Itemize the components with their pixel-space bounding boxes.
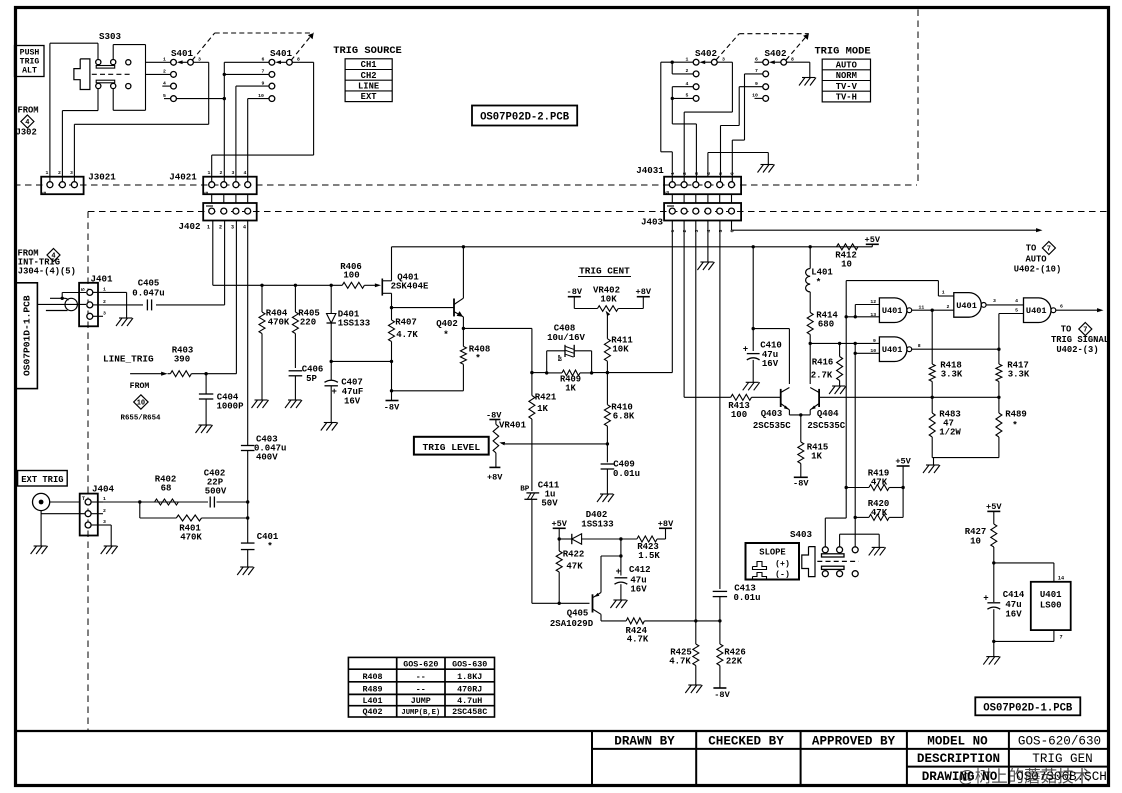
svg-text:2SC535C: 2SC535C bbox=[807, 421, 845, 431]
svg-text:6: 6 bbox=[730, 172, 736, 175]
connector J4021 bbox=[203, 177, 257, 195]
svg-text:2: 2 bbox=[103, 299, 106, 305]
svg-text:3: 3 bbox=[232, 170, 235, 176]
wire R407 R408 common to -8V bbox=[390, 389, 393, 392]
S303 linkage dashed line bbox=[92, 73, 132, 75]
dashed boundary OS07P02D-1.PCB left edge bbox=[87, 212, 89, 732]
svg-text:ALT: ALT bbox=[22, 67, 37, 76]
wire S403-2 to ground bbox=[839, 534, 841, 547]
wire J401-1 to shield bbox=[62, 292, 86, 294]
svg-text:JUMP(B,E): JUMP(B,E) bbox=[401, 709, 440, 717]
capacitor C408 parallel R409 loop bbox=[545, 371, 548, 374]
wire S401-6 to J4021-2 column bbox=[224, 61, 269, 63]
svg-text:1: 1 bbox=[670, 229, 676, 232]
svg-text:R489: R489 bbox=[1005, 410, 1027, 420]
svg-text:U401: U401 bbox=[882, 345, 903, 355]
svg-text:3: 3 bbox=[694, 229, 700, 232]
svg-text:0.047u: 0.047u bbox=[132, 289, 164, 299]
wire S403-1 to R419 net bbox=[845, 488, 847, 519]
ground at C404 bbox=[199, 424, 212, 426]
SLOPE minus icon bbox=[753, 573, 767, 580]
ground at R404 bbox=[255, 399, 268, 401]
svg-text:R408: R408 bbox=[362, 672, 382, 682]
svg-text:T: T bbox=[82, 496, 85, 502]
S402 pin 2 contact bbox=[693, 71, 699, 77]
OS07P02D-2.PCB label box bbox=[472, 106, 577, 126]
wire Q401 source node bbox=[390, 306, 393, 309]
svg-text:TV-H: TV-H bbox=[836, 93, 857, 103]
+5V terminal at D402 bbox=[553, 527, 566, 529]
main supply rail to +5V bbox=[392, 246, 873, 248]
svg-text:2: 2 bbox=[163, 69, 166, 75]
VR402 wiper arrow bbox=[606, 315, 608, 339]
switch S403 actuator bbox=[802, 547, 815, 577]
svg-text:16V: 16V bbox=[1005, 609, 1022, 619]
svg-text:5: 5 bbox=[1015, 307, 1018, 313]
svg-text:SLOPE: SLOPE bbox=[759, 548, 785, 558]
wire J403-5 column with C413 bbox=[719, 221, 721, 590]
svg-text:Q403: Q403 bbox=[761, 409, 783, 419]
wire C405 to J402-2 bbox=[156, 304, 225, 306]
+5V terminal at R412 bbox=[871, 244, 873, 247]
svg-text:+: + bbox=[983, 594, 988, 604]
svg-text:8: 8 bbox=[791, 56, 794, 62]
wire S402-9 to J4031-5 bbox=[739, 86, 763, 88]
svg-text:2: 2 bbox=[103, 508, 106, 514]
svg-text:C412: C412 bbox=[629, 565, 651, 575]
svg-text:10u/16V: 10u/16V bbox=[547, 333, 585, 343]
svg-text:680: 680 bbox=[818, 320, 834, 330]
svg-text:4: 4 bbox=[243, 225, 246, 231]
svg-text:7: 7 bbox=[1047, 246, 1051, 254]
svg-text:TO: TO bbox=[1026, 244, 1037, 254]
wire S402-4 S402-5 to J4031-3 bbox=[672, 86, 693, 88]
ground at C412 bbox=[613, 599, 626, 601]
wire S402-7 to J4031-6 bbox=[745, 73, 763, 75]
svg-text:6: 6 bbox=[262, 57, 265, 63]
svg-text:TRIG: TRIG bbox=[20, 58, 40, 67]
svg-text:S401: S401 bbox=[270, 48, 293, 59]
S401 pin 5 contact bbox=[171, 96, 177, 102]
svg-text:GOS-620/630: GOS-620/630 bbox=[1018, 735, 1101, 749]
svg-text:1: 1 bbox=[163, 57, 166, 63]
svg-text:U401: U401 bbox=[1040, 590, 1062, 600]
svg-text:11: 11 bbox=[919, 304, 925, 310]
LINE_TRIG arrow wire bbox=[130, 373, 163, 375]
svg-text:2SC458C: 2SC458C bbox=[452, 707, 487, 717]
svg-text:4: 4 bbox=[706, 172, 712, 175]
TRIG LEVEL label box bbox=[414, 437, 489, 455]
svg-text:*: * bbox=[267, 541, 273, 552]
wire S401-8 to J4021-1 bbox=[292, 61, 313, 63]
wire S401-3 to J3021-3 bbox=[193, 61, 208, 63]
svg-text:2SC535C: 2SC535C bbox=[753, 421, 791, 431]
svg-text:NORM: NORM bbox=[836, 71, 857, 81]
svg-text:S303: S303 bbox=[99, 31, 122, 42]
svg-text:L401: L401 bbox=[362, 696, 382, 706]
ground at R416 bbox=[832, 385, 845, 387]
svg-text:U402-(10): U402-(10) bbox=[1014, 265, 1062, 275]
ground at C414 bbox=[986, 656, 999, 658]
wire J404-2 to shield bbox=[41, 513, 85, 515]
capacitor C410 bbox=[752, 247, 754, 351]
svg-text:C406: C406 bbox=[302, 365, 324, 375]
svg-text:+: + bbox=[332, 387, 337, 397]
svg-text:9: 9 bbox=[262, 80, 265, 86]
ground at J403-4 bbox=[700, 261, 713, 263]
svg-text:6.8K: 6.8K bbox=[613, 412, 635, 422]
svg-text:+8V: +8V bbox=[658, 519, 674, 529]
svg-text:470K: 470K bbox=[180, 533, 202, 543]
svg-text:1/2W: 1/2W bbox=[939, 428, 961, 438]
svg-text:C407: C407 bbox=[341, 378, 363, 388]
NAND gate U401 A pins 12 13 11 bbox=[879, 298, 907, 323]
svg-text:S: S bbox=[42, 191, 48, 194]
S401 pin 6 contact bbox=[269, 59, 275, 65]
svg-text:8: 8 bbox=[918, 343, 921, 349]
svg-text:R427: R427 bbox=[965, 527, 987, 537]
svg-text:MODEL NO: MODEL NO bbox=[927, 735, 988, 749]
wire gate A input 13 net to S403 bbox=[846, 316, 879, 318]
S303 moving contact bar top bbox=[96, 66, 115, 69]
EXT TRIG label box bbox=[18, 471, 68, 487]
svg-text:3.3K: 3.3K bbox=[1008, 370, 1030, 380]
S403 contact 2 bbox=[837, 547, 843, 553]
svg-text:APPROVED BY: APPROVED BY bbox=[812, 735, 896, 749]
svg-text:TRIG GEN: TRIG GEN bbox=[1032, 752, 1092, 766]
svg-text:R421: R421 bbox=[535, 393, 557, 403]
S401 pin 8 contact bbox=[287, 59, 293, 65]
-8V terminal at R426 bbox=[713, 687, 726, 689]
svg-text:4: 4 bbox=[1015, 298, 1018, 304]
svg-text:2: 2 bbox=[682, 229, 688, 232]
svg-text:1: 1 bbox=[942, 290, 945, 296]
svg-text:0.01u: 0.01u bbox=[733, 593, 760, 603]
svg-text:JUMP: JUMP bbox=[411, 696, 431, 706]
title block grid bbox=[591, 731, 593, 785]
svg-text:2: 2 bbox=[686, 68, 689, 74]
svg-text:CH2: CH2 bbox=[361, 71, 377, 81]
svg-text:2: 2 bbox=[58, 170, 61, 176]
svg-text:S: S bbox=[665, 191, 671, 194]
svg-text:1: 1 bbox=[686, 56, 689, 62]
ground at S402-8 bbox=[802, 77, 815, 79]
svg-text:GOS-630: GOS-630 bbox=[452, 660, 487, 670]
svg-text:4: 4 bbox=[163, 80, 166, 86]
S401 pin 9 contact bbox=[269, 83, 275, 89]
dashed boundary OS07P02D-2.PCB right edge bbox=[917, 10, 919, 186]
svg-text:J302: J302 bbox=[16, 128, 37, 138]
svg-text:1SS133: 1SS133 bbox=[581, 520, 613, 530]
svg-text:AUTO: AUTO bbox=[1025, 255, 1046, 265]
svg-text:1K: 1K bbox=[565, 384, 576, 394]
svg-text:FROM: FROM bbox=[130, 382, 150, 391]
ground at C406 bbox=[288, 399, 301, 401]
capacitor C404 bbox=[204, 372, 207, 375]
svg-text:7: 7 bbox=[755, 68, 758, 74]
wires J4031 to J403 bbox=[671, 194, 673, 203]
connector J401 bbox=[79, 283, 98, 327]
svg-text:TO: TO bbox=[1061, 325, 1072, 335]
svg-text:C405: C405 bbox=[138, 279, 160, 289]
svg-text:S402: S402 bbox=[764, 48, 786, 59]
wire J403-3 column bbox=[695, 221, 697, 621]
svg-text:GOS-620: GOS-620 bbox=[403, 660, 438, 670]
S402 pin 7 contact bbox=[763, 71, 769, 77]
svg-text:0.01u: 0.01u bbox=[613, 469, 640, 479]
svg-text:68: 68 bbox=[161, 484, 172, 494]
ground at C410 bbox=[746, 381, 759, 383]
svg-text:3: 3 bbox=[231, 225, 234, 231]
svg-text:C413: C413 bbox=[734, 584, 756, 594]
svg-text:6: 6 bbox=[1060, 304, 1063, 310]
ground at C401 bbox=[240, 566, 253, 568]
wire S401-9 to J4021-3 bbox=[236, 85, 269, 87]
wire J404-1 main ext line bbox=[103, 501, 208, 503]
svg-text:16V: 16V bbox=[344, 397, 361, 407]
wire latch feedback to gate B pin 1 bbox=[846, 280, 938, 282]
wire J403-4 to ground bbox=[707, 221, 709, 263]
svg-text:PUSH: PUSH bbox=[20, 49, 40, 58]
dashed PCB interconnect line through J3021 J4021 J4031 bbox=[14, 184, 917, 186]
svg-text:+5V: +5V bbox=[895, 457, 911, 467]
svg-text:47uF: 47uF bbox=[342, 387, 364, 397]
svg-text:OS07P02D-2.PCB: OS07P02D-2.PCB bbox=[480, 111, 570, 123]
svg-text:VR401: VR401 bbox=[499, 421, 527, 431]
svg-text:+5V: +5V bbox=[551, 519, 567, 529]
svg-text:4: 4 bbox=[686, 81, 689, 87]
svg-text:10: 10 bbox=[137, 400, 145, 408]
wire J3021-3 column bbox=[73, 124, 75, 181]
svg-text:10K: 10K bbox=[600, 295, 617, 305]
svg-text:3: 3 bbox=[694, 172, 700, 175]
svg-text:1: 1 bbox=[207, 225, 210, 231]
svg-text:*: * bbox=[443, 329, 449, 340]
svg-text:CHECKED BY: CHECKED BY bbox=[708, 735, 784, 749]
wire S403-3 to R420 net bbox=[854, 517, 856, 546]
S401 pin 10 contact bbox=[269, 96, 275, 102]
S401 pin 3 contact bbox=[188, 59, 194, 65]
svg-text:1000P: 1000P bbox=[216, 402, 244, 412]
wire gate D output 6 TRIG SIGNAL arrow bbox=[1056, 309, 1099, 311]
svg-text:4: 4 bbox=[25, 119, 29, 127]
svg-text:OS07P01D-1.PCB: OS07P01D-1.PCB bbox=[22, 295, 33, 376]
wire J3021-2 to S303 bbox=[61, 111, 63, 182]
OS07P02D-1.PCB label box bbox=[975, 697, 1080, 715]
svg-text:AUTO: AUTO bbox=[836, 60, 857, 70]
svg-text:10: 10 bbox=[258, 93, 264, 99]
wire J401-2 to C405 bbox=[103, 304, 143, 306]
S403 bottom shorting bar bbox=[822, 566, 845, 569]
svg-text:R489: R489 bbox=[362, 684, 382, 694]
svg-text:LS00: LS00 bbox=[1040, 601, 1062, 611]
svg-text:+: + bbox=[616, 567, 621, 577]
svg-text:(-): (-) bbox=[775, 570, 790, 580]
svg-text:+8V: +8V bbox=[487, 473, 503, 483]
svg-text:S402: S402 bbox=[695, 48, 717, 59]
+5V terminal at R427 bbox=[987, 510, 1000, 512]
svg-text:47K: 47K bbox=[566, 562, 583, 572]
wire gate C output 8 bbox=[912, 348, 999, 350]
svg-text:7: 7 bbox=[1083, 327, 1087, 335]
svg-text:+5V: +5V bbox=[865, 235, 881, 245]
+8V terminal at VR402 bbox=[637, 296, 650, 298]
ground near J4031 pin4 route bbox=[707, 153, 709, 177]
svg-text:U401: U401 bbox=[1026, 306, 1047, 316]
svg-text:3: 3 bbox=[70, 170, 73, 176]
-8V terminal at VR402 bbox=[568, 296, 581, 298]
Q405 collector to R424 bbox=[593, 609, 602, 614]
+8V terminal at R423 bbox=[665, 528, 667, 539]
wires J4021 to J402 bbox=[211, 194, 213, 203]
svg-text:1.5K: 1.5K bbox=[638, 551, 660, 561]
svg-text:7: 7 bbox=[1059, 635, 1062, 641]
svg-text:-8V: -8V bbox=[567, 287, 583, 297]
EXT TRIG BNC connector bbox=[33, 493, 50, 510]
node R411 R410 to J403-1 bbox=[606, 371, 609, 374]
svg-text:-8V: -8V bbox=[714, 690, 730, 700]
wire J402-3 column bbox=[235, 221, 237, 374]
svg-text:LINE: LINE bbox=[358, 82, 379, 92]
S403 bottom contact 5 bbox=[837, 571, 843, 577]
svg-text:J3021: J3021 bbox=[88, 172, 116, 183]
svg-text:1K: 1K bbox=[811, 452, 822, 462]
svg-text:--: -- bbox=[416, 684, 426, 694]
S402 pin 3 contact bbox=[711, 59, 717, 65]
S402 pin 4 contact bbox=[693, 84, 699, 90]
svg-text:J403: J403 bbox=[641, 217, 664, 228]
wire S402-1 to J4031-1 bbox=[661, 61, 693, 63]
wire D401 to Q401 source node bbox=[330, 360, 333, 363]
wire to gate D pin 5 bbox=[998, 314, 1000, 350]
svg-text:*: * bbox=[475, 353, 481, 364]
svg-text:U402-(3): U402-(3) bbox=[1056, 345, 1098, 355]
svg-text:1: 1 bbox=[208, 170, 211, 176]
S402 pin 1 contact bbox=[693, 59, 699, 65]
svg-text:TRIG LEVEL: TRIG LEVEL bbox=[423, 442, 481, 453]
svg-text:S403: S403 bbox=[790, 529, 813, 540]
S403 bottom contact 6 bbox=[852, 571, 858, 577]
ground at C409 bbox=[600, 493, 613, 495]
svg-text:CH1: CH1 bbox=[361, 60, 377, 70]
wire S402-2 tie to pin1 bbox=[671, 62, 673, 74]
svg-text:5P: 5P bbox=[306, 374, 317, 384]
dashed boundary OS07P02D-1.PCB top edge through J402 J403 bbox=[88, 211, 1110, 213]
wire S303 to S401-1 bbox=[146, 61, 171, 63]
ground at C407 bbox=[324, 422, 337, 424]
S401 linkage dashed diagonal bbox=[192, 33, 215, 61]
wire gate B output 3 to gate D pin 4 bbox=[986, 304, 1024, 306]
svg-text:1K: 1K bbox=[537, 404, 548, 414]
S402 right wiper arrow bbox=[773, 61, 781, 63]
svg-text:400V: 400V bbox=[256, 452, 278, 462]
svg-text:10: 10 bbox=[752, 93, 758, 99]
S403 linkage dashed bbox=[817, 560, 858, 562]
svg-text:500V: 500V bbox=[205, 487, 227, 497]
svg-text:J304-(4)(5): J304-(4)(5) bbox=[18, 266, 76, 276]
node dots on main bias node bbox=[260, 284, 263, 287]
PUSH TRIG ALT label box bbox=[15, 46, 45, 77]
S403 top shorting bar bbox=[822, 554, 845, 557]
svg-text:LINE_TRIG: LINE_TRIG bbox=[103, 354, 154, 365]
S402 left wiper arrow bbox=[704, 61, 712, 63]
svg-text:3: 3 bbox=[198, 57, 201, 63]
svg-text:5: 5 bbox=[718, 172, 724, 175]
OS07P01D-1.PCB label box bbox=[15, 283, 37, 389]
svg-text:R416: R416 bbox=[812, 358, 834, 368]
ground at J401-1 bbox=[119, 317, 132, 319]
wire J401-1 to ground bbox=[103, 291, 127, 293]
svg-text:J4031: J4031 bbox=[636, 165, 664, 176]
svg-text:L401: L401 bbox=[811, 268, 833, 278]
S401 pin 4 contact bbox=[171, 83, 177, 89]
svg-text:2: 2 bbox=[220, 170, 223, 176]
svg-text:Q404: Q404 bbox=[817, 409, 839, 419]
wire S402-6 stub bbox=[755, 61, 763, 63]
S402 pin 8 contact bbox=[781, 59, 787, 65]
svg-text:50V: 50V bbox=[541, 499, 558, 509]
svg-text:4.7K: 4.7K bbox=[396, 330, 418, 340]
wire S402-3 to J4031-2 bbox=[717, 61, 732, 63]
svg-text:3: 3 bbox=[993, 298, 996, 304]
wire S401-10 to J4021-4 bbox=[248, 98, 269, 100]
-8V terminal below R407 bbox=[386, 400, 399, 402]
svg-text:4: 4 bbox=[706, 229, 712, 232]
S402 pin 10 contact bbox=[763, 96, 769, 102]
svg-text:BP: BP bbox=[558, 355, 564, 361]
svg-text:4.7K: 4.7K bbox=[627, 635, 649, 645]
Q405 emitter to D402 node bbox=[593, 593, 602, 598]
NAND gate U401 B pins 1 2 3 bbox=[954, 293, 982, 318]
svg-text:*: * bbox=[1012, 420, 1018, 431]
wire S401-7 to J4021-2 junction bbox=[224, 73, 269, 75]
svg-text:EXT: EXT bbox=[361, 92, 378, 102]
svg-text:3: 3 bbox=[722, 56, 725, 62]
svg-text:7: 7 bbox=[262, 69, 265, 75]
S402 linkage dashed diagonal bbox=[716, 34, 739, 60]
ground at S403-2 bbox=[872, 546, 885, 548]
svg-text:470K: 470K bbox=[268, 318, 290, 328]
wire gate C inputs net to S403 bbox=[854, 343, 856, 517]
svg-text:-8V: -8V bbox=[384, 403, 400, 413]
connector J4031 bbox=[664, 177, 741, 195]
S401 pin 2 contact bbox=[171, 72, 177, 78]
wire S402-8 to ground bbox=[787, 61, 810, 63]
svg-text:5: 5 bbox=[686, 93, 689, 99]
svg-text:+5V: +5V bbox=[986, 502, 1002, 512]
svg-text:@树上的蘑菇技术: @树上的蘑菇技术 bbox=[958, 767, 1090, 786]
S401 right wiper arrow bbox=[280, 61, 287, 63]
SLOPE label box bbox=[746, 543, 800, 580]
wire J3021-1 to S303 bbox=[49, 43, 51, 181]
INT TRIG coax input symbol bbox=[65, 298, 77, 310]
svg-text:TRIG MODE: TRIG MODE bbox=[814, 46, 870, 58]
svg-text:2.7K: 2.7K bbox=[811, 371, 833, 381]
svg-text:5: 5 bbox=[718, 229, 724, 232]
BNC shield to ground bbox=[40, 511, 42, 546]
title block top line bbox=[14, 730, 1110, 732]
svg-text:1: 1 bbox=[46, 170, 49, 176]
svg-text:9: 9 bbox=[873, 338, 876, 344]
svg-text:16V: 16V bbox=[630, 584, 647, 594]
S401 pin 7 contact bbox=[269, 72, 275, 78]
svg-text:C408: C408 bbox=[554, 324, 576, 334]
node R414 Q404 collector bbox=[809, 342, 812, 345]
wire gate A input 12 bbox=[855, 304, 879, 306]
IC U401 LS00 power box bbox=[1031, 582, 1071, 630]
svg-text:100: 100 bbox=[731, 410, 747, 420]
S402 pin 9 contact bbox=[763, 84, 769, 90]
